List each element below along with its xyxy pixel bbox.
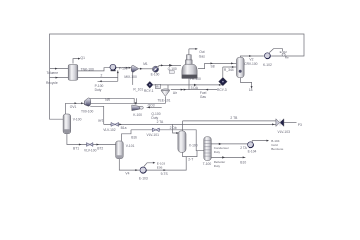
svg-text:B1a: B1a xyxy=(121,126,127,130)
svg-text:E-103: E-103 xyxy=(139,177,148,181)
svg-text:2-T: 2-T xyxy=(188,158,193,162)
svg-text:Q1: Q1 xyxy=(81,56,86,60)
svg-text:K-102: K-102 xyxy=(263,63,272,67)
svg-text:R_344: R_344 xyxy=(224,68,234,72)
svg-text:RCY-1: RCY-1 xyxy=(144,89,154,93)
svg-text:MIX-100: MIX-100 xyxy=(124,75,137,79)
svg-text:K-100: K-100 xyxy=(133,113,142,117)
svg-text:VLV-100: VLV-100 xyxy=(84,149,97,153)
svg-text:T00-100: T00-100 xyxy=(81,110,93,114)
svg-text:TNK-100: TNK-100 xyxy=(81,67,94,71)
svg-text:3 DA: 3 DA xyxy=(191,86,199,90)
svg-text:CRV-100: CRV-100 xyxy=(244,62,257,66)
svg-text:V-100: V-100 xyxy=(73,118,82,122)
svg-text:E-O2: E-O2 xyxy=(280,50,288,54)
svg-text:B1b: B1b xyxy=(131,135,137,139)
svg-text:18: 18 xyxy=(249,88,253,92)
svg-text:NR: NR xyxy=(105,98,110,102)
svg-text:BT2: BT2 xyxy=(97,147,103,151)
svg-text:VLV-102: VLV-102 xyxy=(103,128,116,132)
svg-text:Duty: Duty xyxy=(214,164,221,168)
svg-text:Gas: Gas xyxy=(199,54,205,58)
svg-text:E06: E06 xyxy=(157,165,163,169)
svg-text:OO3: OO3 xyxy=(148,103,155,107)
svg-text:S8: S8 xyxy=(211,64,215,68)
svg-text:E-100: E-100 xyxy=(151,73,160,77)
svg-text:Duty: Duty xyxy=(95,88,102,92)
svg-text:9-TS: 9-TS xyxy=(161,172,169,176)
svg-text:av1: av1 xyxy=(98,119,103,123)
svg-text:Benzene: Benzene xyxy=(271,147,283,151)
svg-text:2 TA: 2 TA xyxy=(240,146,247,150)
svg-text:V2: V2 xyxy=(249,58,253,62)
svg-text:E-104: E-104 xyxy=(248,149,257,153)
svg-text:Q-100: Q-100 xyxy=(168,67,177,71)
svg-text:Re: Re xyxy=(285,55,289,59)
svg-text:VLV-101: VLV-101 xyxy=(147,133,160,137)
svg-text:P-100: P-100 xyxy=(119,67,128,71)
svg-text:OV1: OV1 xyxy=(70,105,77,109)
svg-text:RCY-3: RCY-3 xyxy=(217,88,227,92)
svg-text:P3: P3 xyxy=(298,123,302,127)
svg-text:Recycle: Recycle xyxy=(46,81,58,85)
svg-text:V-101: V-101 xyxy=(126,144,135,148)
svg-text:B10: B10 xyxy=(240,160,246,164)
svg-text:T-100: T-100 xyxy=(203,162,212,166)
svg-text:2 TA: 2 TA xyxy=(157,120,164,124)
svg-text:V4: V4 xyxy=(125,172,129,176)
svg-text:Toluene: Toluene xyxy=(47,71,59,75)
svg-text:VLV-103: VLV-103 xyxy=(278,130,291,134)
svg-text:Gas: Gas xyxy=(200,95,206,99)
svg-text:R_101: R_101 xyxy=(133,88,143,92)
svg-text:M1: M1 xyxy=(143,62,148,66)
svg-text:Duty: Duty xyxy=(214,150,221,154)
svg-text:TEE-101: TEE-101 xyxy=(158,98,171,102)
svg-text:X-100: X-100 xyxy=(189,144,198,148)
svg-text:2 Db: 2 Db xyxy=(170,126,177,130)
svg-text:BT1: BT1 xyxy=(73,147,79,151)
svg-text:2 TB: 2 TB xyxy=(230,116,238,120)
svg-text:FH-100: FH-100 xyxy=(190,77,201,81)
svg-text:2: 2 xyxy=(101,74,103,78)
